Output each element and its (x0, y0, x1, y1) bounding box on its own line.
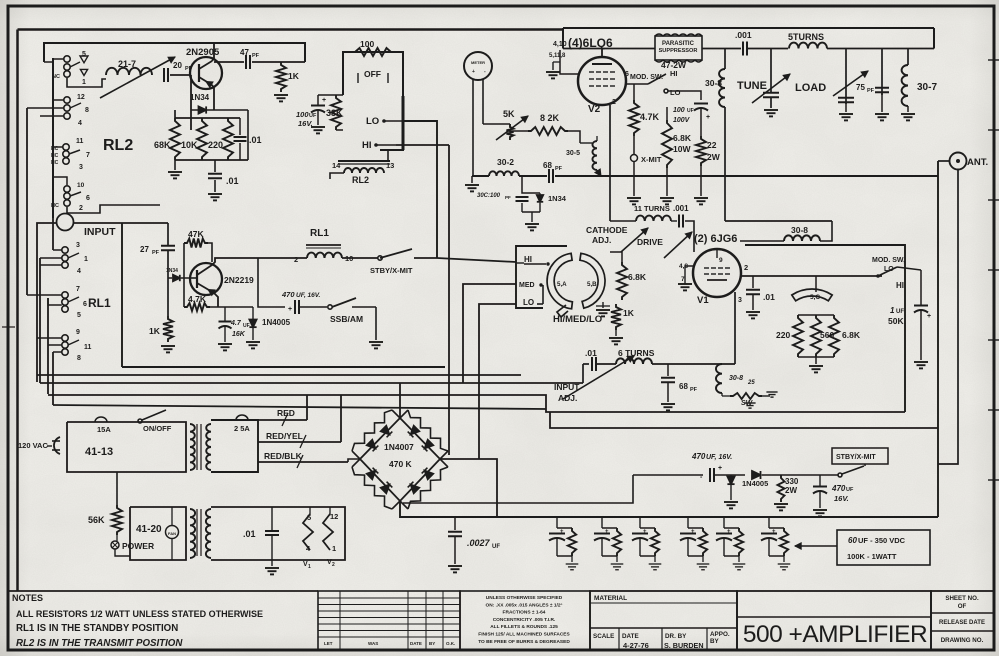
svg-text:METER: METER (471, 60, 485, 65)
ground 75pf (881, 92, 883, 112)
svg-text:5,C: 5,C (810, 294, 820, 301)
fan motor FAN (166, 526, 179, 539)
resistor 330 2W (778, 475, 785, 502)
variable capacitor TUNE (770, 49, 772, 93)
wire tank rail (583, 363, 589, 365)
capacitor .01 a (234, 136, 247, 138)
svg-text:6: 6 (86, 195, 90, 202)
filter cell ground at x769 (783, 556, 785, 562)
parasitic suppressor (655, 36, 702, 60)
diode 1N4005 series (752, 471, 761, 479)
ground 22 2W (700, 166, 702, 196)
svg-text:RL1 IS IN THE STANDBY POSITION: RL1 IS IN THE STANDBY POSITION (16, 623, 178, 634)
svg-text:+: + (643, 529, 647, 535)
bridge diode 6 (381, 485, 390, 494)
resistor 47K feedback (184, 239, 208, 248)
svg-text:PF: PF (505, 195, 511, 200)
wire resistor top bus (175, 117, 240, 119)
svg-text:DR. BY: DR. BY (665, 633, 687, 640)
ground X-MIT (633, 162, 635, 197)
svg-text:13: 13 (386, 161, 394, 170)
svg-text:30-8: 30-8 (729, 375, 743, 382)
svg-text:RELEASE DATE: RELEASE DATE (939, 620, 985, 626)
svg-text:ADJ.: ADJ. (558, 393, 577, 403)
svg-text:+: + (706, 114, 710, 121)
svg-text:5: 5 (82, 51, 86, 58)
svg-text:4-27-76: 4-27-76 (623, 641, 649, 650)
resistor 68K (170, 118, 180, 160)
svg-text:220: 220 (208, 140, 223, 150)
svg-text:11: 11 (76, 138, 84, 145)
svg-text:100V: 100V (673, 117, 691, 124)
svg-text:1: 1 (82, 79, 86, 86)
wire V1 cathode pins (685, 266, 693, 272)
ground 1K cathode (615, 330, 617, 336)
svg-text:21-7: 21-7 (118, 59, 136, 69)
wire LO branch (668, 91, 701, 100)
switch STBY/X-MIT b (832, 448, 888, 464)
detector sub network (522, 176, 540, 193)
scale box (618, 628, 620, 650)
wire cap to 2N2905 base (170, 74, 191, 76)
svg-text:TO BE FREE OF BURRS & DEGREASE: TO BE FREE OF BURRS & DEGREASED (478, 639, 570, 645)
svg-text:2N2219: 2N2219 (224, 275, 254, 285)
diode 1N4005 shunt (727, 477, 734, 485)
wire bridge top riser (399, 383, 401, 418)
wire tank riser (582, 364, 584, 383)
svg-text:DATE: DATE (410, 641, 422, 646)
ground rotor (602, 302, 604, 308)
svg-text:470: 470 (281, 290, 295, 299)
svg-text:SHEET NO.: SHEET NO. (945, 595, 979, 602)
svg-text:NC: NC (51, 203, 59, 209)
svg-text:+: + (322, 97, 326, 104)
svg-text:3: 3 (76, 242, 80, 249)
capacitor det 100pf (516, 196, 529, 198)
wire V1 plate right (741, 275, 882, 277)
svg-text:30-8: 30-8 (791, 225, 808, 235)
bridge rectifier 1N4007 (360, 418, 440, 501)
svg-text:FINISH 125/ ALL MACHINED SURFA: FINISH 125/ ALL MACHINED SURFACES (478, 632, 570, 638)
svg-text:RED/BLK: RED/BLK (264, 451, 303, 461)
wire collector node to 47pf (190, 75, 192, 130)
wire riser x449 (448, 145, 450, 455)
inductor 30-7 (907, 49, 909, 66)
plate supply rail double (563, 27, 934, 29)
resistor 56K (112, 505, 122, 535)
svg-text:4: 4 (78, 120, 82, 127)
svg-text:UF - 350 VDC: UF - 350 VDC (858, 536, 906, 545)
wire output res bus (798, 314, 834, 316)
svg-text:DATE: DATE (622, 633, 639, 640)
resistor 6.8K output (829, 315, 839, 357)
resistor 33K (331, 95, 341, 130)
svg-text:RL1: RL1 (88, 296, 111, 310)
svg-text:25: 25 (747, 380, 755, 386)
svg-text:11 TURNS: 11 TURNS (634, 204, 670, 213)
svg-text:HI: HI (362, 140, 372, 151)
wire input riser (167, 223, 169, 246)
filter resistor at x739 (735, 528, 743, 556)
ground 68K (174, 160, 176, 170)
filter capacitor at x602 (601, 518, 603, 528)
svg-text:8 2K: 8 2K (540, 113, 560, 123)
svg-text:30-5: 30-5 (566, 150, 580, 157)
wire bridge right out (440, 459, 497, 518)
arrow trimmer 21-7 (100, 57, 175, 98)
svg-text:+: + (772, 529, 776, 535)
revision table (318, 591, 460, 650)
svg-text:LET: LET (324, 641, 333, 646)
electrolytic 4.7uf 16V (224, 307, 226, 321)
wire to V1 grid (685, 221, 694, 252)
svg-text:.01: .01 (763, 292, 775, 302)
svg-text:APPO.: APPO. (710, 631, 730, 638)
tube V2 (578, 57, 626, 105)
transformer T1 secondary box (211, 420, 258, 472)
svg-text:30-7: 30-7 (917, 82, 937, 93)
bridge diode 3 (411, 426, 420, 435)
svg-text:2: 2 (612, 99, 616, 106)
svg-text:6: 6 (625, 71, 629, 78)
resistor SW 25ohm (730, 393, 762, 399)
svg-text:ALL FILLETS & ROUNDS .125: ALL FILLETS & ROUNDS .125 (490, 624, 558, 630)
svg-text:56K: 56K (88, 515, 105, 525)
svg-text:1N4007: 1N4007 (384, 442, 414, 452)
svg-text:.001: .001 (673, 204, 689, 213)
ground 4.7uf (224, 327, 226, 343)
ground 470uF b (813, 509, 827, 511)
wire bus y394 (48, 395, 905, 412)
svg-text:CATHODE: CATHODE (586, 225, 628, 235)
svg-text:UF: UF (492, 544, 500, 550)
lamp POWER (111, 541, 119, 549)
variable capacitor LOAD (845, 49, 847, 105)
svg-text:1K: 1K (623, 308, 635, 318)
svg-text:1: 1 (84, 256, 88, 263)
svg-text:LO: LO (366, 116, 379, 127)
svg-text:PF: PF (152, 250, 160, 256)
svg-text:(2) 6JG6: (2) 6JG6 (694, 233, 737, 245)
svg-text:500 +AMPLIFIER: 500 +AMPLIFIER (743, 621, 927, 648)
svg-text:NC: NC (52, 74, 60, 80)
svg-text:10: 10 (77, 182, 85, 189)
ground SSB/AM (375, 307, 377, 340)
arrow note (795, 545, 837, 547)
filter capacitor at x557 (556, 518, 558, 528)
svg-text:PF: PF (867, 88, 875, 94)
ground 330 (774, 503, 788, 505)
svg-text:+: + (927, 313, 931, 320)
wire RED/YEL riser (340, 395, 342, 442)
svg-text:6.8K: 6.8K (628, 272, 647, 282)
filter resistor at x617 (613, 528, 621, 556)
wire choke down (724, 107, 726, 221)
filter resistor at x784 (780, 528, 788, 556)
ground 1N4005 (252, 328, 254, 340)
bridge resistor bottom-right (408, 467, 448, 509)
capacitor .01 b (214, 160, 216, 172)
svg-text:RL2: RL2 (352, 175, 369, 185)
svg-text:4: 4 (77, 268, 81, 275)
wire V2 cathode down (609, 105, 611, 221)
ground 30-7 (907, 106, 909, 112)
svg-text:DRIVE: DRIVE (637, 237, 663, 247)
svg-text:6.8K: 6.8K (842, 330, 861, 340)
filter cell ground at x688 (702, 556, 704, 562)
svg-text:STBY/X-MIT: STBY/X-MIT (836, 454, 876, 461)
transformer T2 secondary box (211, 507, 345, 560)
svg-text:6.8K: 6.8K (673, 133, 692, 143)
svg-text:5TURNS: 5TURNS (788, 32, 824, 42)
wire resistor bottom bus (175, 159, 248, 161)
wire 8.2K to 30-5 coil (568, 131, 580, 143)
svg-text:OFF: OFF (364, 69, 381, 79)
svg-text:8: 8 (77, 355, 81, 362)
wire left bus verticals (26, 108, 28, 295)
svg-text:PF: PF (690, 387, 698, 393)
ground 1K (274, 94, 288, 96)
relay coil RL2 (338, 160, 390, 162)
wire bus y375 (37, 374, 521, 376)
relay RL2 contact group 2 pins 12-8-4 (64, 97, 70, 103)
wire 2N2905 collector to cap47 (213, 61, 215, 63)
switch SSB/AM (328, 305, 332, 309)
wire 6.8K top (610, 252, 622, 262)
svg-text:1N4005: 1N4005 (262, 318, 291, 327)
ground SW b (744, 402, 755, 404)
svg-text:LOAD: LOAD (795, 82, 826, 94)
wire RL2 coil right riser (387, 150, 389, 161)
resistor 6.8K 10W (662, 120, 672, 168)
resistor 8.2K (528, 127, 568, 135)
wire top rail to 2N2905 collector (44, 43, 305, 62)
svg-text:5: 5 (77, 312, 81, 319)
variable inductor 21-7 (106, 68, 152, 75)
svg-text:UF: UF (846, 487, 854, 493)
switch box OFF-LO-HI (343, 52, 403, 150)
svg-text:RL2: RL2 (103, 137, 133, 154)
svg-text:TUNE: TUNE (737, 80, 767, 92)
wire to antenna (933, 48, 935, 50)
svg-text:100: 100 (673, 107, 685, 114)
svg-text:O.K.: O.K. (446, 641, 455, 646)
svg-text:V1: V1 (697, 295, 709, 306)
svg-text:470: 470 (831, 484, 846, 493)
resistor 1K emitter (163, 316, 173, 342)
svg-text:HI: HI (524, 255, 532, 264)
svg-text:6 TURNS: 6 TURNS (618, 348, 655, 358)
svg-text:+: + (472, 69, 475, 75)
svg-text:FAN: FAN (168, 531, 176, 536)
svg-text:.01: .01 (585, 348, 597, 358)
diode det 1N34 (537, 195, 543, 202)
wire ant main vertical (937, 161, 939, 517)
svg-text:PARASITIC: PARASITIC (662, 41, 695, 47)
svg-text:OF: OF (958, 603, 967, 610)
svg-text:LO: LO (670, 88, 681, 97)
relay RL2 contact group 4 pins 10-6-2 (64, 186, 70, 192)
wire bridge left in (348, 459, 360, 462)
wire grid network (740, 240, 784, 242)
filter resistor at x572 (568, 528, 576, 556)
filter resistor at x703 (699, 528, 707, 556)
svg-text:1N34: 1N34 (166, 268, 178, 274)
svg-text:2 5A: 2 5A (234, 424, 250, 433)
bridge resistor top-right (408, 410, 448, 451)
wire group1 to tuning coil (67, 78, 106, 87)
svg-text:1N34: 1N34 (190, 93, 210, 102)
bridge resistor top-left (352, 410, 392, 451)
V1 stage box top and right (745, 245, 905, 412)
inner border left (16, 30, 19, 592)
svg-text:100K - 1WATT: 100K - 1WATT (847, 552, 897, 561)
svg-text:4.7: 4.7 (230, 320, 242, 327)
ground LOAD (845, 102, 847, 112)
svg-text:+: + (727, 529, 731, 535)
svg-text:16K: 16K (232, 331, 246, 338)
fuse 2.5A (236, 415, 248, 420)
svg-text:ALL RESISTORS 1/2 WATT UNLESS: ALL RESISTORS 1/2 WATT UNLESS STATED OTH… (16, 609, 263, 619)
note box 60uF (837, 530, 930, 565)
svg-text:NC: NC (51, 160, 59, 166)
relay RL2 contact group 3 pins 11-7-3 (63, 144, 69, 150)
wire V2 screen pins (560, 50, 578, 74)
ground 1K emitter (161, 345, 175, 347)
resistor 220 ohm (223, 118, 233, 160)
svg-text:30-2: 30-2 (497, 157, 514, 167)
svg-text:41-13: 41-13 (85, 446, 113, 458)
fuse 15A (95, 417, 107, 422)
dr by box (706, 628, 708, 650)
svg-text:CONCENTRICITY .005 T.I.R.: CONCENTRICITY .005 T.I.R. (493, 617, 556, 623)
relay RL1 contact group 3 pins 9-11-8 (62, 335, 68, 341)
filter capacitor at x769 (768, 518, 770, 528)
svg-text:75: 75 (856, 83, 865, 92)
wire V1 pin3 down (734, 292, 736, 364)
svg-text:1N4005: 1N4005 (742, 479, 768, 488)
svg-text:2: 2 (744, 263, 748, 272)
ground 68pf tank (661, 403, 675, 405)
box detector network (247, 110, 249, 160)
resistor 1K cathode V1 (611, 304, 621, 330)
svg-text:27: 27 (140, 245, 149, 254)
lamp X-MIT (631, 155, 638, 162)
svg-text:ADJ.: ADJ. (592, 235, 611, 245)
wire stby riser (864, 464, 866, 466)
wire group4 box (53, 177, 67, 185)
resistor 560 output (811, 315, 821, 357)
resistor 100 ohm (352, 48, 394, 56)
transformer 41-13 primary box (67, 422, 186, 472)
svg-text:.01: .01 (243, 529, 256, 539)
date box (661, 628, 663, 650)
svg-text:.01: .01 (226, 176, 239, 186)
registration mark left (2, 326, 15, 328)
svg-text:2W: 2W (785, 486, 797, 495)
switch box HI MED LO (516, 246, 567, 308)
transformer T1 windings (190, 424, 195, 470)
capacitor 68pf series (548, 169, 550, 183)
svg-text:ON/OFF: ON/OFF (143, 424, 172, 433)
filter cell ground at x602 (616, 556, 618, 562)
wire bus y405 (53, 405, 546, 409)
filter capacitor at x688 (687, 518, 689, 528)
svg-text:41-20: 41-20 (136, 524, 162, 535)
tube V1 (693, 249, 741, 297)
svg-text:22: 22 (707, 140, 717, 150)
svg-text:UNLESS OTHERWISE SPECIFIED: UNLESS OTHERWISE SPECIFIED (486, 595, 563, 601)
svg-text:STBY/X-MIT: STBY/X-MIT (370, 266, 413, 275)
svg-text:HI/MED/LO: HI/MED/LO (553, 314, 602, 325)
material box (460, 591, 590, 650)
wire 2N2219 emitter (214, 293, 218, 307)
svg-text:+: + (691, 529, 695, 535)
svg-text:68: 68 (543, 161, 552, 170)
svg-text:INPUT: INPUT (84, 226, 116, 238)
svg-text:+: + (605, 529, 609, 535)
svg-text:12: 12 (77, 94, 85, 101)
svg-text:UF, 16V.: UF, 16V. (296, 292, 321, 299)
capacitor 68pf tank (667, 364, 669, 376)
svg-text:120 VAC: 120 VAC (18, 441, 48, 450)
resistor 22 2W (696, 136, 706, 166)
svg-text:50K: 50K (888, 316, 904, 326)
ground output res (815, 357, 817, 364)
bridge diode 2 (367, 440, 376, 449)
svg-text:UF: UF (896, 309, 904, 315)
ground .01 b (214, 180, 216, 192)
wire bridge bottom out (400, 501, 938, 517)
relay RL1 contact group 1 pins 3-1-4 (62, 247, 68, 253)
svg-text:16V.: 16V. (298, 119, 313, 128)
svg-text:MOD. SW,: MOD. SW, (872, 257, 905, 264)
wires switch left (516, 262, 524, 264)
inductor 30-8 tank (716, 364, 722, 393)
rotor arc S-A (547, 253, 572, 308)
ground .01 V1 (746, 311, 760, 313)
sheet no box (931, 591, 994, 650)
svg-text:14: 14 (332, 161, 341, 170)
wire MED feed (463, 284, 516, 383)
ground V1 cathode (678, 283, 692, 285)
wire input to stage box (37, 223, 57, 382)
bridge diode 4 (425, 440, 434, 449)
svg-text:SUPPRESSOR: SUPPRESSOR (659, 48, 698, 54)
switch ON/OFF (138, 419, 142, 423)
meter M1 (464, 52, 492, 80)
capacitor .0027uF (454, 518, 456, 530)
notes box (8, 590, 318, 592)
rotor arc S-B (580, 253, 605, 308)
svg-text:1: 1 (332, 544, 336, 553)
svg-text:100: 100 (360, 39, 374, 49)
svg-text:4.7K: 4.7K (640, 112, 660, 122)
bridge diode 8 (411, 485, 420, 494)
svg-text:+: + (288, 306, 292, 313)
svg-text:3: 3 (738, 297, 742, 304)
svg-text:WAS: WAS (368, 641, 378, 646)
svg-text:RL2 IS IN THE TRANSMIT POSITIO: RL2 IS IN THE TRANSMIT POSITION (16, 638, 183, 649)
svg-text:1K: 1K (149, 326, 161, 336)
wire bus y383 (40, 382, 583, 384)
switch S-C arc (792, 289, 832, 301)
transistor Q1 2N2905 (190, 57, 222, 89)
svg-text:6: 6 (83, 301, 87, 308)
svg-text:+: + (718, 465, 722, 472)
ground V2 pins (552, 62, 554, 70)
svg-text:2: 2 (332, 562, 335, 568)
